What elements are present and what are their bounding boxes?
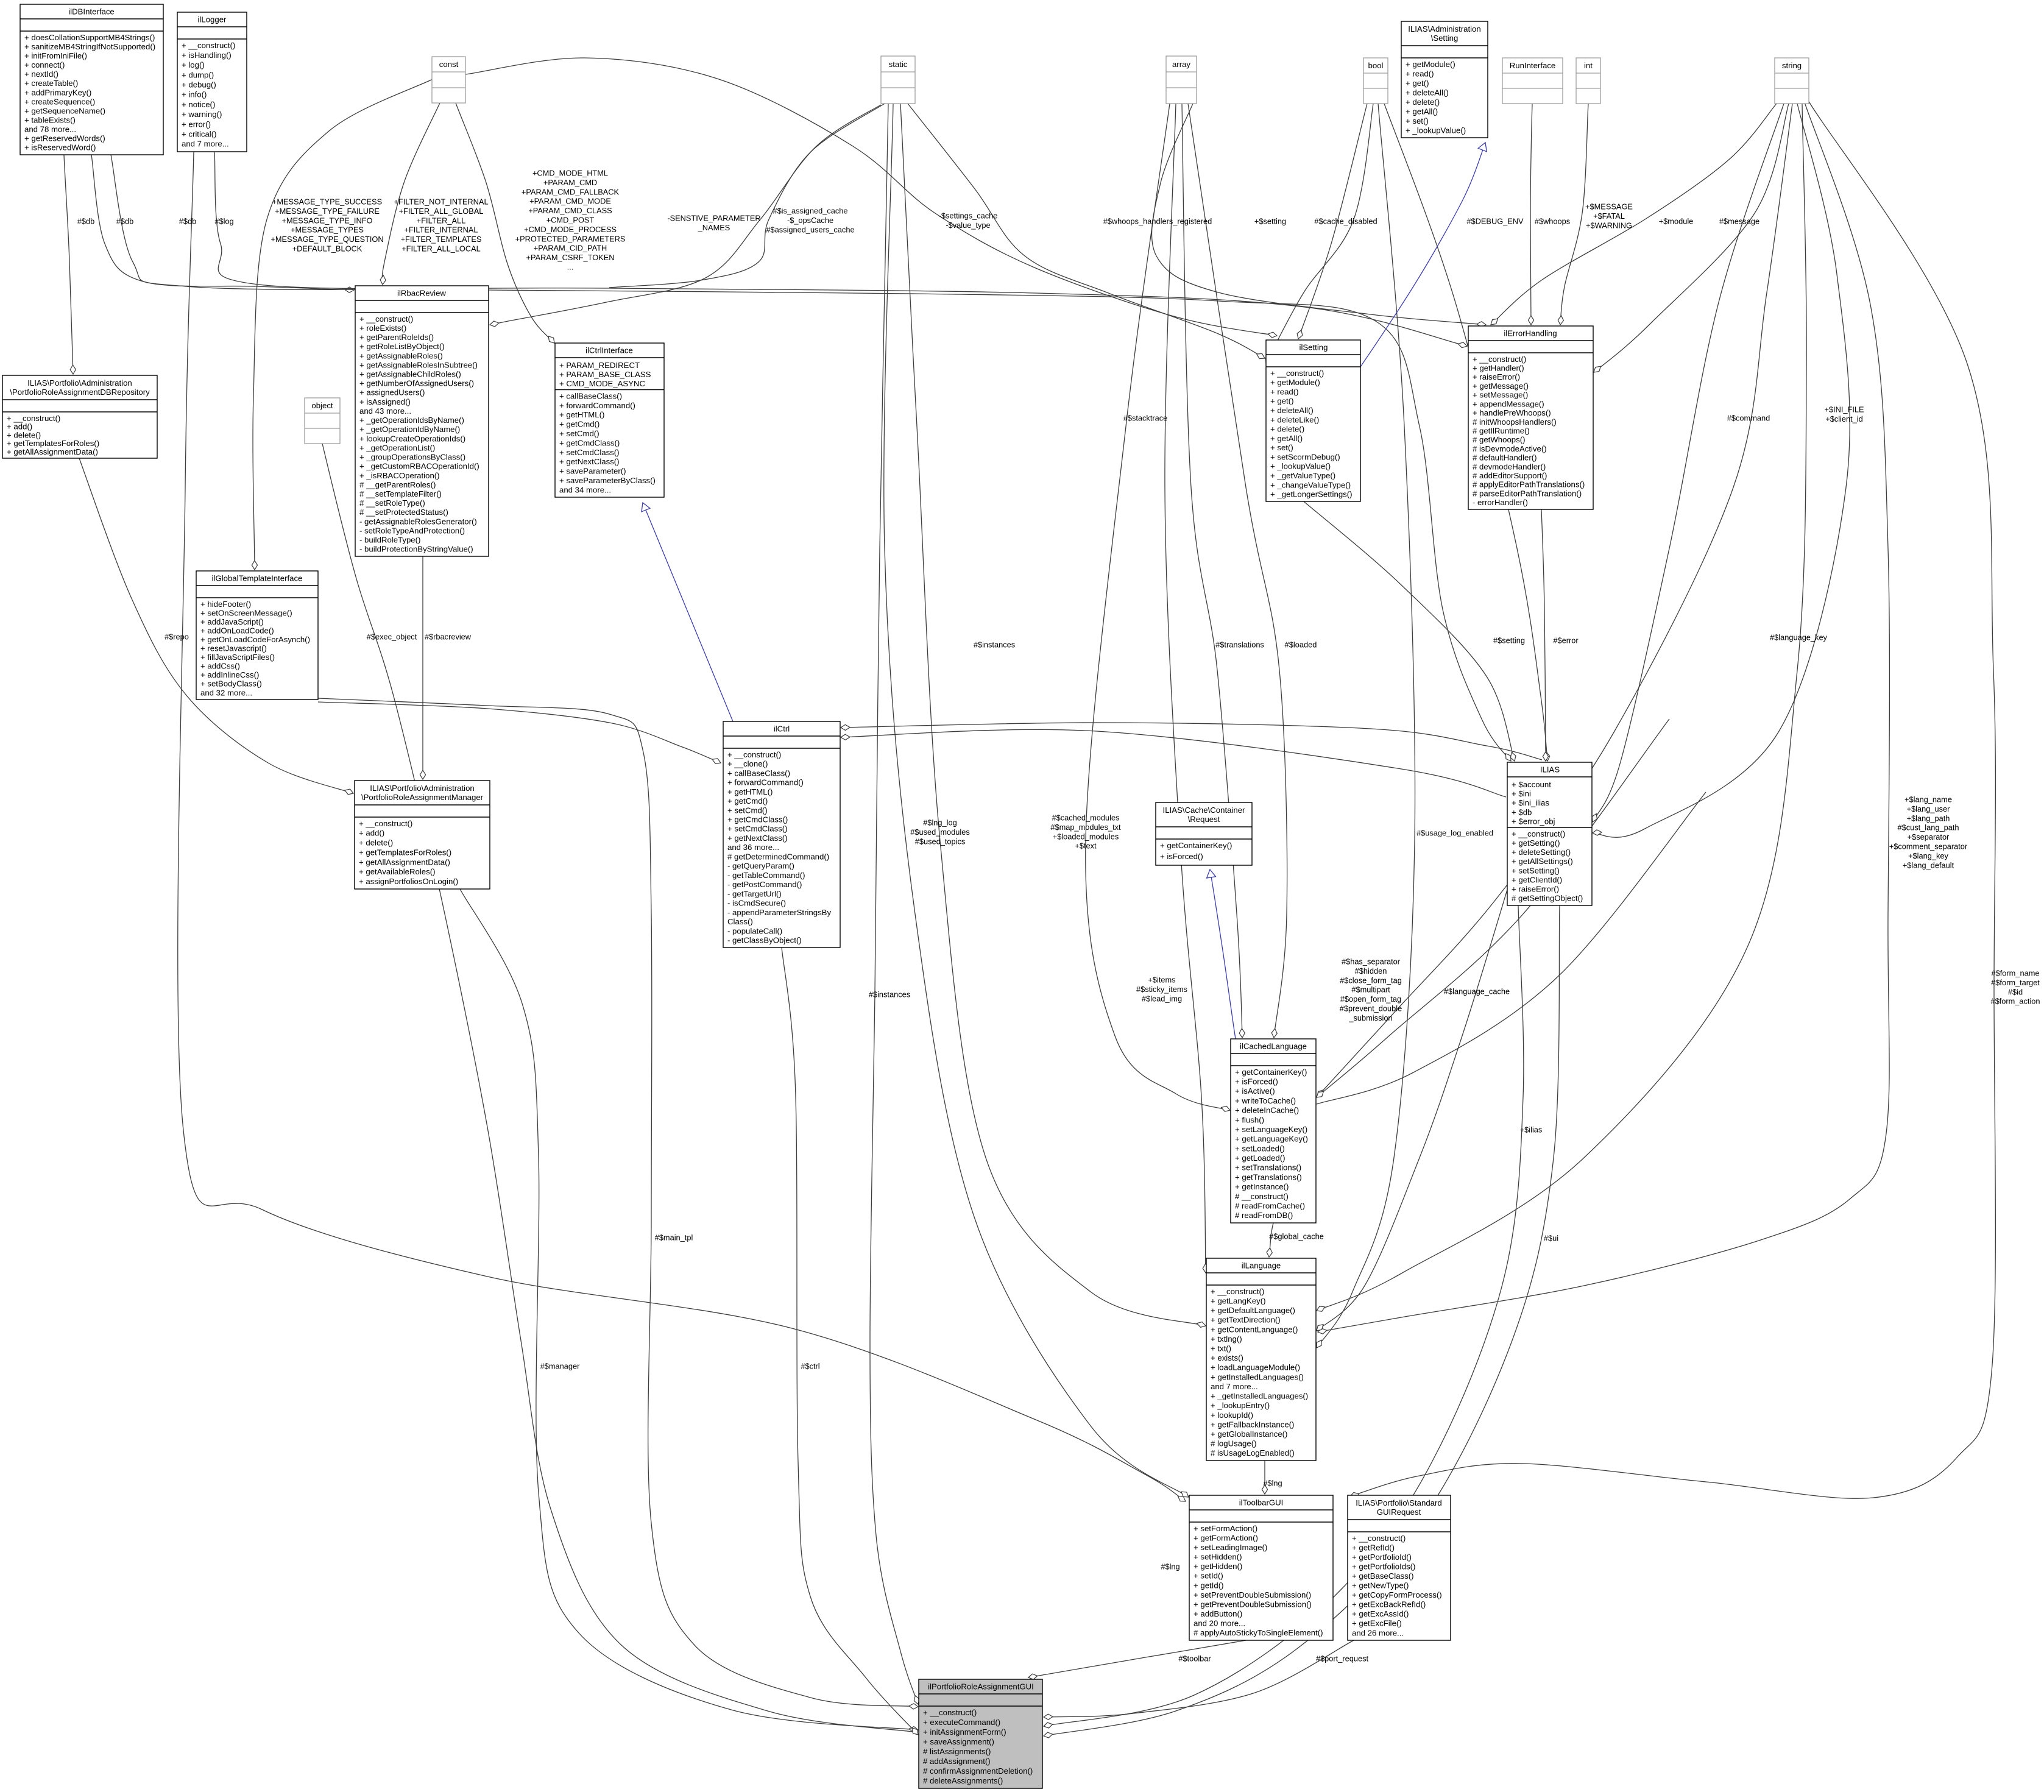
svg-text:+ getLangKey(): + getLangKey() [1211, 1296, 1266, 1305]
wire bool to ILIAS [1384, 104, 1550, 761]
svg-text:+PARAM_CMD_CLASS: +PARAM_CMD_CLASS [528, 206, 612, 215]
svg-text:-$settings_cache: -$settings_cache [939, 211, 998, 221]
svg-text:+ error(): + error() [182, 119, 211, 129]
svg-text:+ saveAssignment(): + saveAssignment() [923, 1737, 994, 1746]
wire RunInterface to ilErrorHandling #$whoops [1528, 104, 1533, 325]
svg-text:+ createSequence(): + createSequence() [24, 97, 95, 106]
svg-text:string: string [1782, 61, 1802, 70]
class box object [305, 398, 340, 444]
inheritance ilCtrl to ilCtrlInterface [642, 503, 733, 721]
svg-text:+ _groupOperationsByClass(): + _groupOperationsByClass() [359, 453, 465, 462]
svg-text:+ initFromIniFile(): + initFromIniFile() [24, 51, 87, 60]
svg-text:#$used_modules: #$used_modules [910, 827, 969, 837]
svg-text:+$ilias: +$ilias [1520, 1125, 1543, 1135]
wire ILIAS to ilCachedLanguage right 2 [1317, 792, 1706, 1104]
svg-text:and 7 more...: and 7 more... [1211, 1382, 1258, 1391]
svg-text:+ getPortfolioId(): + getPortfolioId() [1352, 1553, 1412, 1562]
svg-text:+ getReservedWords(): + getReservedWords() [24, 134, 105, 143]
svg-text:+ assignedUsers(): + assignedUsers() [359, 388, 425, 397]
svg-text:+ __construct(): + __construct() [727, 750, 781, 759]
svg-text:+ _getCustomRBACOperationId(): + _getCustomRBACOperationId() [359, 462, 479, 471]
svg-text:+ getExcFile(): + getExcFile() [1352, 1619, 1402, 1628]
svg-text:+ __construct(): + __construct() [1211, 1287, 1264, 1296]
svg-text:+ _lookupValue(): + _lookupValue() [1406, 126, 1466, 135]
wire bool to ilSetting #$cache_disabled [1266, 104, 1374, 363]
wire string to ilLanguage #$language_key [1317, 104, 1806, 1311]
svg-text:#$lng_log: #$lng_log [923, 818, 957, 827]
wire array to ilCachedLanguage #$translations [1182, 104, 1245, 1038]
wire GUIRequest to GUI #$port_request [1044, 1640, 1354, 1719]
svg-text:+ setHidden(): + setHidden() [1194, 1553, 1242, 1562]
svg-text:+ setSetting(): + setSetting() [1512, 866, 1560, 875]
wire const to ilSetting -$settings_cache [465, 58, 1277, 338]
svg-text:+ $error_obj: + $error_obj [1512, 817, 1555, 826]
svg-text:ilToolbarGUI: ilToolbarGUI [1239, 1498, 1284, 1507]
svg-text:\PortfolioRoleAssignmentManage: \PortfolioRoleAssignmentManager [361, 793, 484, 802]
svg-text:+ getCmdClass(): + getCmdClass() [559, 438, 620, 447]
svg-text:+$MESSAGE: +$MESSAGE [1585, 202, 1633, 211]
wire ilCtrl to GUI #$ctrl [782, 947, 918, 1735]
wire array to ilErrorHandling #$whoops_handlers_registered [1151, 104, 1486, 327]
class box MainGUI [919, 1679, 1042, 1788]
svg-text:- getQueryParam(): - getQueryParam() [727, 862, 794, 871]
svg-text:+$FATAL: +$FATAL [1593, 211, 1625, 221]
svg-text:+ addJavaScript(): + addJavaScript() [200, 617, 264, 626]
svg-text:ILIAS\Portfolio\Standard: ILIAS\Portfolio\Standard [1356, 1498, 1441, 1507]
svg-text:- setRoleTypeAndProtection(): - setRoleTypeAndProtection() [359, 526, 465, 536]
wire ilRbacReview to Manager #$rbacreview [420, 556, 425, 779]
wire ilErrorHandling to ILIAS #$error [1541, 509, 1549, 761]
wire object to GUI #$exec_object [322, 444, 918, 1732]
svg-text:+ getParentRoleIds(): + getParentRoleIds() [359, 333, 434, 342]
svg-text:#$toolbar: #$toolbar [1178, 1654, 1211, 1663]
wire ilLanguage to ilToolbarGUI #$lng [1262, 1461, 1267, 1494]
svg-text:#$instances: #$instances [974, 640, 1015, 650]
svg-text:+ getPreventDoubleSubmission(): + getPreventDoubleSubmission() [1194, 1600, 1312, 1609]
svg-text:+ setCmd(): + setCmd() [559, 429, 599, 438]
svg-text:+ getTemplatesForRoles(): + getTemplatesForRoles() [7, 439, 99, 448]
wire ilToolbarGUI to GUI #$toolbar [1028, 1640, 1246, 1679]
svg-text:+$lang_user: +$lang_user [1907, 804, 1951, 813]
svg-text:+$text: +$text [1075, 841, 1097, 851]
svg-text:RunInterface: RunInterface [1510, 61, 1556, 70]
svg-text:+$INI_FILE: +$INI_FILE [1824, 405, 1864, 414]
wire ilCtrl bus right [841, 723, 1542, 760]
wire static to ilLanguage #$lng_log modules [900, 104, 1206, 1327]
wire ilDBInterface to PortfolioRoleAssignmentDBRepository #$db [64, 155, 76, 374]
class box CacheRequest [1156, 802, 1252, 865]
class box ILIAS [1507, 762, 1592, 905]
wire ILIAS to ilLanguage #$language_cache [1317, 890, 1507, 1331]
svg-text:+ fillJavaScriptFiles(): + fillJavaScriptFiles() [200, 653, 275, 662]
svg-text:+ getFallbackInstance(): + getFallbackInstance() [1211, 1420, 1294, 1429]
svg-text:- isCmdSecure(): - isCmdSecure() [727, 899, 786, 908]
svg-text:+ isForced(): + isForced() [1235, 1077, 1278, 1086]
svg-text:+ getDefaultLanguage(): + getDefaultLanguage() [1211, 1306, 1295, 1315]
svg-text:+ setTranslations(): + setTranslations() [1235, 1163, 1301, 1172]
svg-text:+ isAssigned(): + isAssigned() [359, 397, 411, 406]
svg-text:#$db: #$db [77, 217, 94, 226]
svg-text:#$language_cache: #$language_cache [1444, 987, 1510, 996]
svg-text:+ _getOperationIdByName(): + _getOperationIdByName() [359, 425, 460, 434]
svg-text:#$cached_modules: #$cached_modules [1052, 813, 1120, 823]
svg-text:#$manager: #$manager [540, 1362, 580, 1371]
svg-text:#$exec_object: #$exec_object [367, 632, 417, 642]
svg-text:+ setMessage(): + setMessage() [1473, 391, 1528, 400]
svg-text:#$has_separator: #$has_separator [1342, 957, 1401, 966]
class box const [432, 57, 465, 103]
svg-text:+ _lookupEntry(): + _lookupEntry() [1211, 1401, 1270, 1410]
svg-text:+PARAM_CSRF_TOKEN: +PARAM_CSRF_TOKEN [526, 253, 615, 262]
wire string to GUIRequest #$form attrs [1350, 101, 1995, 1498]
svg-text:+ saveParameterByClass(): + saveParameterByClass() [559, 476, 656, 485]
svg-text:+ setFormAction(): + setFormAction() [1194, 1524, 1257, 1533]
svg-text:#$main_tpl: #$main_tpl [655, 1233, 693, 1242]
svg-text:#$message: #$message [1719, 217, 1759, 226]
class box string [1775, 58, 1809, 104]
wire static to bus -SENSTIVE_PARAMETER_NAMES [609, 104, 885, 288]
svg-text:+ getNextClass(): + getNextClass() [727, 834, 788, 843]
svg-text:#$setting: #$setting [1493, 636, 1525, 645]
svg-text:+$comment_separator: +$comment_separator [1889, 842, 1968, 851]
svg-text:+ setCmdClass(): + setCmdClass() [727, 824, 788, 834]
svg-text:+ connect(): + connect() [24, 60, 65, 69]
svg-text:+ CMD_MODE_ASYNC: + CMD_MODE_ASYNC [559, 379, 646, 388]
svg-text:+FILTER_TEMPLATES: +FILTER_TEMPLATES [401, 235, 482, 244]
svg-text:array: array [1172, 60, 1190, 69]
svg-text:+PARAM_CID_PATH: +PARAM_CID_PATH [534, 244, 607, 253]
svg-text:#$translations: #$translations [1215, 640, 1264, 650]
svg-text:+$WARNING: +$WARNING [1586, 221, 1632, 230]
svg-text:_NAMES: _NAMES [698, 223, 730, 232]
wire ilCtrl bus right 2 [841, 729, 1506, 797]
class box ilSetting [1266, 340, 1360, 501]
svg-text:- buildProtectionByStringValue: - buildProtectionByStringValue() [359, 545, 473, 554]
svg-text:+ createTable(): + createTable() [24, 79, 78, 88]
svg-text:+FILTER_ALL_LOCAL: +FILTER_ALL_LOCAL [401, 244, 481, 253]
wire string to ilErrorHandling #$DEBUG_ENV [1491, 104, 1777, 325]
svg-text:ilLanguage: ilLanguage [1242, 1261, 1281, 1270]
svg-text:#$form_action: #$form_action [1990, 997, 2040, 1006]
svg-text:+ getNumberOfAssignedUsers(): + getNumberOfAssignedUsers() [359, 379, 474, 388]
svg-text:#$is_assigned_cache: #$is_assigned_cache [773, 207, 847, 216]
svg-text:+ __construct(): + __construct() [1352, 1534, 1406, 1543]
svg-text:+ getAllAssignmentData(): + getAllAssignmentData() [7, 447, 98, 456]
svg-text:ILIAS\Portfolio\Administration: ILIAS\Portfolio\Administration [27, 378, 132, 388]
svg-text:+ lookupId(): + lookupId() [1211, 1411, 1253, 1420]
svg-text:#$language_key: #$language_key [1770, 633, 1828, 642]
svg-text:+ getContentLanguage(): + getContentLanguage() [1211, 1325, 1298, 1334]
svg-text:and 36 more...: and 36 more... [727, 843, 779, 852]
svg-text:+MESSAGE_TYPE_SUCCESS: +MESSAGE_TYPE_SUCCESS [272, 197, 382, 207]
inheritance ilCachedLanguage to CacheRequest [1207, 869, 1236, 1039]
svg-text:+ isHandling(): + isHandling() [182, 51, 232, 60]
svg-text:#$open_form_tag: #$open_form_tag [1340, 994, 1401, 1004]
wire ilGlobalTemplateInterface to ilCtrl [318, 702, 721, 763]
wire Manager to GUI #$manager [460, 889, 918, 1732]
svg-text:+$loaded_modules: +$loaded_modules [1053, 832, 1119, 841]
svg-text:+$module: +$module [1659, 217, 1694, 226]
svg-text:+ setLeadingImage(): + setLeadingImage() [1194, 1543, 1267, 1552]
svg-text:+ setLanguageKey(): + setLanguageKey() [1235, 1125, 1307, 1134]
svg-text:+ callBaseClass(): + callBaseClass() [559, 391, 622, 400]
svg-text:#$usage_log_enabled: #$usage_log_enabled [1416, 829, 1493, 838]
wire const to ilCtrlInterface +PARAM/CMD constants [456, 103, 554, 343]
svg-text:+ setOnScreenMessage(): + setOnScreenMessage() [200, 608, 292, 617]
svg-text:\PortfolioRoleAssignmentDBRepo: \PortfolioRoleAssignmentDBRepository [10, 388, 150, 397]
svg-text:- buildRoleType(): - buildRoleType() [359, 536, 420, 545]
svg-text:...: ... [567, 263, 574, 272]
wire string to ilLanguage +$lang attrs [1318, 102, 1889, 1334]
svg-text:- getTargetUrl(): - getTargetUrl() [727, 889, 782, 898]
svg-text:+$lang_key: +$lang_key [1908, 851, 1948, 860]
svg-text:+ getAllAssignmentData(): + getAllAssignmentData() [359, 857, 450, 866]
svg-text:+$lang_default: +$lang_default [1903, 860, 1954, 869]
svg-text:+ executeCommand(): + executeCommand() [923, 1718, 1000, 1727]
svg-text:#$db: #$db [116, 217, 133, 226]
svg-text:#$error: #$error [1553, 636, 1579, 645]
wire ILIAS to ilCachedLanguage right [1317, 719, 1669, 1097]
svg-text:+ getCmd(): + getCmd() [559, 420, 599, 429]
svg-text:ilCtrl: ilCtrl [774, 724, 790, 733]
svg-text:+ handlePreWhoops(): + handlePreWhoops() [1473, 408, 1551, 417]
svg-text:+MESSAGE_TYPES: +MESSAGE_TYPES [291, 225, 364, 235]
svg-text:+FILTER_NOT_INTERNAL: +FILTER_NOT_INTERNAL [394, 197, 488, 207]
svg-text:+ getRoleListByObject(): + getRoleListByObject() [359, 342, 445, 351]
svg-text:+ getLoaded(): + getLoaded() [1235, 1153, 1285, 1163]
svg-text:\Setting: \Setting [1431, 34, 1459, 43]
svg-text:+ getClientId(): + getClientId() [1512, 875, 1562, 884]
class box int [1576, 58, 1600, 104]
svg-text:+$separator: +$separator [1908, 832, 1950, 841]
svg-text:#$close_form_tag: #$close_form_tag [1340, 976, 1402, 985]
svg-text:+ _lookupValue(): + _lookupValue() [1270, 462, 1331, 471]
svg-text:+ getInstalledLanguages(): + getInstalledLanguages() [1211, 1372, 1304, 1381]
wire ilCachedLanguage to ilLanguage #$global_cache [1267, 1223, 1273, 1257]
class box ilCtrlInterface [555, 343, 664, 497]
svg-text:# readFromCache(): # readFromCache() [1235, 1201, 1305, 1210]
svg-text:#$log: #$log [214, 217, 233, 226]
class box GUIRequest [1348, 1495, 1451, 1640]
svg-text:+ setBodyClass(): + setBodyClass() [200, 679, 262, 689]
svg-text:# __getParentRoles(): # __getParentRoles() [359, 480, 436, 489]
svg-text:bool: bool [1368, 61, 1384, 70]
svg-text:+ set(): + set() [1406, 116, 1429, 126]
wire const to ilGlobalTemplateInterface +MESSAGE_TYPE constants [252, 79, 433, 570]
svg-text:+ getHidden(): + getHidden() [1194, 1562, 1242, 1571]
class box ilRbacReview [355, 286, 489, 556]
svg-text:+ getMessage(): + getMessage() [1473, 381, 1529, 391]
class box ilErrorHandling [1468, 326, 1593, 509]
svg-text:+ raiseError(): + raiseError() [1512, 885, 1559, 894]
svg-text:+ $account: + $account [1512, 780, 1551, 789]
class box Manager [355, 781, 490, 889]
svg-text:+ getBaseClass(): + getBaseClass() [1352, 1571, 1414, 1581]
svg-text:+PARAM_CMD_MODE: +PARAM_CMD_MODE [529, 197, 611, 206]
svg-text:+ __construct(): + __construct() [1270, 369, 1324, 378]
svg-text:#$port_request: #$port_request [1316, 1654, 1369, 1663]
svg-text:+ getAssignableChildRoles(): + getAssignableChildRoles() [359, 370, 461, 379]
svg-text:and 43 more...: and 43 more... [359, 406, 411, 416]
svg-text:- errorHandler(): - errorHandler() [1473, 498, 1528, 507]
svg-text:+ getPortfolioIds(): + getPortfolioIds() [1352, 1562, 1415, 1571]
svg-text:# __setTemplateFilter(): # __setTemplateFilter() [359, 489, 442, 498]
svg-text:+ assignPortfoliosOnLogin(): + assignPortfoliosOnLogin() [359, 877, 458, 886]
svg-text:+ critical(): + critical() [182, 130, 217, 139]
svg-text:+CMD_POST: +CMD_POST [546, 216, 595, 225]
svg-text:+ setPreventDoubleSubmission(): + setPreventDoubleSubmission() [1194, 1590, 1311, 1599]
svg-text:+ __clone(): + __clone() [727, 759, 768, 768]
svg-text:+ getCmd(): + getCmd() [727, 796, 768, 806]
svg-text:+ deleteInCache(): + deleteInCache() [1235, 1106, 1299, 1115]
svg-text:+ txt(): + txt() [1211, 1344, 1231, 1353]
svg-text:#$assigned_users_cache: #$assigned_users_cache [766, 225, 854, 234]
wire ilSetting to ILIAS #$setting [1304, 501, 1516, 761]
svg-text:+ _changeValueType(): + _changeValueType() [1270, 480, 1351, 489]
svg-text:+ __construct(): + __construct() [182, 41, 235, 50]
svg-text:+ PARAM_BASE_CLASS: + PARAM_BASE_CLASS [559, 370, 651, 379]
svg-text:+ getHTML(): + getHTML() [727, 787, 773, 796]
svg-text:#$whoops_handlers_registered: #$whoops_handlers_registered [1103, 217, 1212, 226]
svg-text:+ _getOperationIdsByName(): + _getOperationIdsByName() [359, 416, 464, 425]
svg-text:ILIAS\Administration: ILIAS\Administration [1408, 24, 1480, 34]
svg-text:#$used_topics: #$used_topics [915, 837, 966, 846]
wire static to ilPortfolioRoleAssignmentGUI #$instances [870, 104, 919, 1704]
svg-text:+ getExcBackRefId(): + getExcBackRefId() [1352, 1600, 1426, 1609]
wire ilDBInterface to ilRbacReview #$db [91, 155, 354, 292]
svg-text:+ addPrimaryKey(): + addPrimaryKey() [24, 88, 91, 97]
svg-text:ILIAS\Portfolio\Administration: ILIAS\Portfolio\Administration [370, 784, 475, 793]
svg-text:+PARAM_CMD_FALLBACK: +PARAM_CMD_FALLBACK [522, 187, 620, 196]
wire ilDBInterface to ILIAS #$db [111, 155, 1511, 761]
svg-text:+ appendMessage(): + appendMessage() [1473, 399, 1544, 408]
svg-text:+ txtlng(): + txtlng() [1211, 1334, 1242, 1344]
svg-text:+ $ini: + $ini [1512, 789, 1531, 798]
svg-text:and 20 more...: and 20 more... [1194, 1619, 1245, 1628]
svg-text:+ tableExists(): + tableExists() [24, 116, 76, 125]
svg-text:+ getGlobalInstance(): + getGlobalInstance() [1211, 1429, 1287, 1439]
svg-text:+ resetJavascript(): + resetJavascript() [200, 644, 267, 653]
svg-text:+ addInlineCss(): + addInlineCss() [200, 670, 259, 679]
svg-text:+ __construct(): + __construct() [359, 819, 412, 828]
svg-text:+ getCmdClass(): + getCmdClass() [727, 815, 788, 824]
svg-text:+ addCss(): + addCss() [200, 662, 240, 671]
svg-text:+ delete(): + delete() [359, 838, 393, 848]
svg-text:- getAssignableRolesGenerator(: - getAssignableRolesGenerator() [359, 517, 477, 526]
svg-text:and 7 more...: and 7 more... [182, 140, 229, 149]
svg-text:+ sanitizeMB4StringIfNotSuppor: + sanitizeMB4StringIfNotSupported() [24, 42, 155, 51]
svg-text:#$rbacreview: #$rbacreview [425, 632, 472, 642]
wire ilLogger to ilToolbarGUI #$log #$lng [178, 152, 1186, 1501]
svg-text:#$global_cache: #$global_cache [1269, 1232, 1324, 1241]
svg-text:+CMD_MODE_HTML: +CMD_MODE_HTML [532, 169, 608, 178]
svg-text:+ getAvailableRoles(): + getAvailableRoles() [359, 867, 435, 876]
svg-text:#$cache_disabled: #$cache_disabled [1314, 217, 1377, 226]
class box ilLogger [177, 12, 247, 152]
svg-text:+ __construct(): + __construct() [7, 414, 60, 423]
svg-text:+ lookupCreateOperationIds(): + lookupCreateOperationIds() [359, 434, 465, 443]
wire bool to ilLanguage #$usage_log_enabled [1317, 104, 1415, 1348]
svg-text:ilErrorHandling: ilErrorHandling [1504, 328, 1557, 338]
svg-text:+PARAM_CMD: +PARAM_CMD [543, 178, 597, 187]
svg-text:# __setProtectedStatus(): # __setProtectedStatus() [359, 508, 448, 517]
svg-text:+ getTranslations(): + getTranslations() [1235, 1172, 1302, 1181]
svg-text:+ log(): + log() [182, 60, 205, 69]
class box array [1166, 56, 1197, 104]
svg-text:+$setting: +$setting [1254, 217, 1286, 226]
wire ilGlobalTemplateInterface to GUI #$main_tpl [318, 698, 918, 1709]
svg-text:+MESSAGE_TYPE_QUESTION: +MESSAGE_TYPE_QUESTION [271, 235, 383, 244]
svg-text:- getPostCommand(): - getPostCommand() [727, 880, 802, 889]
svg-text:#$ctrl: #$ctrl [801, 1362, 819, 1371]
class box ilLanguage [1206, 1258, 1316, 1461]
svg-text:#$command: #$command [1727, 414, 1770, 423]
svg-text:# applyEditorPathTranslations(: # applyEditorPathTranslations() [1473, 480, 1585, 489]
svg-text:ilPortfolioRoleAssignmentGUI: ilPortfolioRoleAssignmentGUI [928, 1682, 1034, 1691]
svg-text:+ $db: + $db [1512, 807, 1532, 816]
svg-text:+ add(): + add() [7, 422, 32, 431]
svg-text:Class(): Class() [727, 917, 753, 926]
wire static to ilToolbarGUI corner [884, 104, 1189, 1497]
svg-text:+ dump(): + dump() [182, 70, 214, 79]
svg-text:+ getOnLoadCodeForAsynch(): + getOnLoadCodeForAsynch() [200, 635, 310, 644]
svg-text:+ getHandler(): + getHandler() [1473, 364, 1524, 373]
svg-text:+ getAssignableRolesInSubtree(: + getAssignableRolesInSubtree() [359, 360, 478, 369]
svg-text:# isUsageLogEnabled(): # isUsageLogEnabled() [1211, 1448, 1295, 1457]
class box ilCachedLanguage [1231, 1039, 1316, 1223]
svg-text:+ getCopyFormProcess(): + getCopyFormProcess() [1352, 1590, 1442, 1599]
svg-text:+ writeToCache(): + writeToCache() [1235, 1096, 1296, 1105]
svg-text:+ setScormDebug(): + setScormDebug() [1270, 452, 1340, 461]
svg-text:- appendParameterStringsBy: - appendParameterStringsBy [727, 908, 831, 917]
svg-text:+ flush(): + flush() [1235, 1115, 1264, 1124]
svg-text:#$ui: #$ui [1544, 1234, 1558, 1243]
svg-text:+DEFAULT_BLOCK: +DEFAULT_BLOCK [292, 244, 362, 253]
svg-text:+$client_id: +$client_id [1825, 414, 1863, 423]
wire const to ilRbacReview +FILTER constants [380, 103, 440, 285]
wire string to ilErrorHandling #$message [1594, 104, 1789, 372]
svg-text:+ read(): + read() [1406, 69, 1434, 78]
svg-text:+ info(): + info() [182, 90, 207, 99]
svg-text:#$DEBUG_ENV: #$DEBUG_ENV [1466, 217, 1524, 226]
svg-text:# getIlRuntime(): # getIlRuntime() [1473, 427, 1530, 436]
wire static to ilRbacReview caches [490, 105, 881, 327]
svg-text:+ getId(): + getId() [1194, 1581, 1223, 1590]
svg-text:+ deleteSetting(): + deleteSetting() [1512, 848, 1571, 857]
wire string to ILIAS +$module [1592, 104, 1784, 822]
svg-text:+ getTextDirection(): + getTextDirection() [1211, 1316, 1281, 1325]
svg-text:+$lang_path: +$lang_path [1907, 813, 1950, 823]
svg-text:+ setCmd(): + setCmd() [727, 806, 768, 815]
class box ilDBInterface [20, 4, 163, 155]
svg-text:+ delete(): + delete() [1406, 97, 1440, 107]
wire string to ilCachedLanguage #$command [1317, 104, 1792, 1097]
svg-text:#$id: #$id [2008, 987, 2023, 996]
svg-text:+ getContainerKey(): + getContainerKey() [1160, 841, 1232, 850]
svg-text:+ nextId(): + nextId() [24, 69, 58, 79]
svg-text:+ raiseError(): + raiseError() [1473, 372, 1520, 381]
svg-text:+ _getOperationList(): + _getOperationList() [359, 443, 435, 452]
wire string to ILIAS +$INI_FILE +$client_id [1593, 104, 1850, 837]
svg-text:#$lng: #$lng [1161, 1562, 1179, 1571]
svg-text:static: static [889, 60, 908, 69]
svg-text:and 78 more...: and 78 more... [24, 125, 76, 134]
svg-text:+$items: +$items [1148, 976, 1175, 985]
svg-text:+ _getInstalledLanguages(): + _getInstalledLanguages() [1211, 1392, 1308, 1401]
svg-text:# deleteAssignments(): # deleteAssignments() [923, 1776, 1003, 1785]
svg-text:ilRbacReview: ilRbacReview [397, 288, 446, 297]
svg-text:+ loadLanguageModule(): + loadLanguageModule() [1211, 1363, 1300, 1372]
